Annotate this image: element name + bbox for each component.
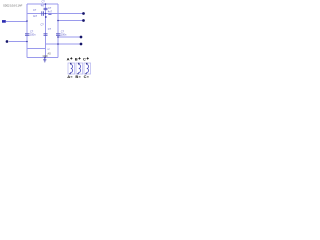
svg-text:GND: GND — [43, 56, 48, 58]
svg-text:A: A — [67, 56, 70, 61]
svg-text:B: B — [75, 74, 78, 79]
svg-text:100n: 100n — [30, 33, 36, 37]
svg-text:4n7: 4n7 — [33, 14, 38, 18]
svg-text:AG: AG — [48, 52, 52, 55]
svg-text:SD02 1/16 0.1AF: SD02 1/16 0.1AF — [3, 3, 23, 7]
svg-text:A: A — [67, 74, 70, 79]
svg-text:B: B — [75, 56, 78, 61]
svg-text:100n: 100n — [61, 33, 67, 37]
svg-text:4n7: 4n7 — [48, 9, 53, 13]
svg-text:C: C — [84, 74, 87, 79]
svg-text:C: C — [83, 56, 86, 61]
